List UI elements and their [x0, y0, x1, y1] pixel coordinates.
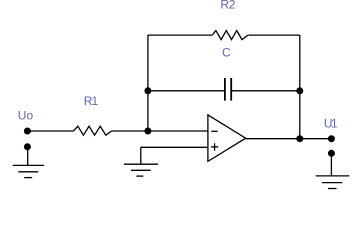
op-amp triangle	[208, 115, 246, 161]
wire op-amp output (245.7,138.7)-(331.4,138.7)	[246, 138, 332, 140]
wire capacitor row left (148,90.8)-(224.3,90.8)	[148, 90, 225, 92]
wire main input horizontal (27.4,131)-(208,131)	[27, 130, 73, 132]
junction dot left cap (148,90.8)	[144, 87, 151, 94]
svg-text:R2: R2	[220, 0, 235, 12]
wire U1 lower dot to right ground vertical	[330, 155, 332, 176]
junction dot main wire (148,131)	[144, 128, 151, 135]
wire top-left vertical (R2 loop left side, x=148 from y=35 to main wire y=131)	[147, 35, 149, 131]
svg-text:C: C	[222, 45, 231, 59]
ground (left, under U0)	[13, 164, 44, 166]
op-amp plus sign	[211, 146, 218, 148]
wire capacitor row right (231.8,90.8)-(300,90.8)	[232, 90, 300, 92]
op-amp minus sign	[211, 130, 217, 132]
junction dot feedback/output (300,138.7)	[296, 135, 303, 142]
wire non-inverting input horizontal (140.8,147.3)-(208,147.3)	[141, 146, 208, 148]
svg-text:R1: R1	[84, 94, 99, 108]
wire U0 lower dot to left ground vertical	[27, 147, 29, 166]
ground (right, under U1)	[316, 175, 350, 177]
svg-text:Uo: Uo	[18, 109, 34, 123]
svg-text:U1: U1	[324, 117, 338, 131]
node U0 port dot	[24, 128, 31, 135]
wire R1 to op-amp inverting input (111.6,131)-(208,131)	[112, 130, 208, 132]
wire U1 node down to lower dot	[330, 153, 332, 157]
resistor R1 zigzag	[73, 126, 111, 135]
capacitor C plates	[224, 78, 226, 101]
node U1 ground dot	[328, 150, 335, 157]
wire top horizontal left segment (148,35)-(212,35)	[148, 34, 212, 36]
node U0 ground dot	[24, 143, 31, 150]
node U1 port dot	[328, 135, 335, 142]
wire top horizontal right segment (248,35)-(300,35)	[248, 34, 300, 36]
ground (middle, under non-inverting input)	[124, 163, 158, 165]
wire non-inverting to ground vertical (140.8,147.3)-(140.8,164)	[140, 147, 142, 164]
wire top-right vertical (R2 loop right side, x=300 from y=35 to output wire y=139)	[299, 35, 301, 139]
junction dot right cap (300,90.8)	[296, 87, 303, 94]
resistor R2 zigzag	[212, 31, 248, 40]
